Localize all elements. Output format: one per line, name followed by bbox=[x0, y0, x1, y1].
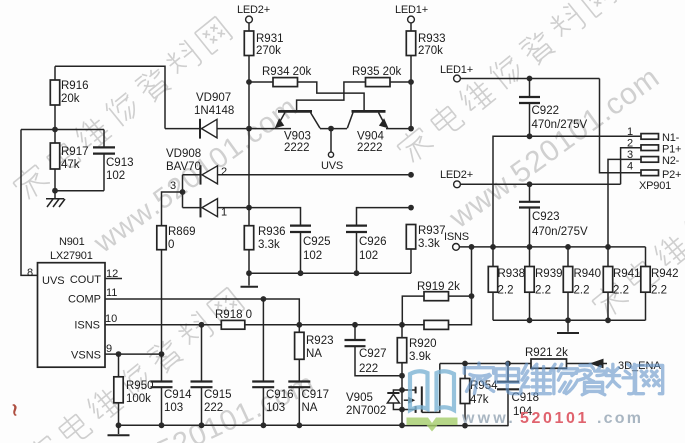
transistor V903 bbox=[249, 111, 320, 154]
svg-text:4: 4 bbox=[627, 161, 633, 173]
svg-text:2222: 2222 bbox=[357, 142, 383, 154]
connector XP901 pin 2 bbox=[627, 138, 681, 156]
resistor R918 bbox=[215, 309, 252, 329]
red mark artifact bottom-left bbox=[12, 404, 17, 416]
svg-text:C925: C925 bbox=[303, 236, 331, 248]
svg-text:N901: N901 bbox=[59, 236, 85, 248]
wire 3D_ENA gate node bbox=[440, 363, 531, 365]
node C923 top bbox=[527, 181, 533, 187]
svg-text:2N7002: 2N7002 bbox=[346, 405, 386, 417]
node R920 top bbox=[399, 322, 405, 328]
capacitor C925 bbox=[249, 208, 331, 274]
node V904 emitter / rail bbox=[408, 126, 414, 132]
svg-text:R940: R940 bbox=[574, 268, 602, 280]
resistor R940 bbox=[563, 247, 601, 320]
resistor R869 bbox=[157, 226, 196, 354]
logo text CJK (vector approximation) bbox=[464, 363, 662, 395]
resistor R942 bbox=[641, 247, 679, 320]
resistor R923 bbox=[295, 325, 334, 382]
node VD908 pin1 / R936 rail bbox=[246, 205, 252, 211]
svg-text:102: 102 bbox=[303, 250, 322, 262]
capacitor C915 bbox=[191, 325, 232, 426]
resistor R916 bbox=[50, 66, 88, 143]
svg-text:BAV70: BAV70 bbox=[166, 161, 201, 173]
transistor V904 bbox=[347, 111, 411, 154]
svg-text:R931: R931 bbox=[256, 33, 284, 45]
node R918/COMP junction bbox=[296, 322, 302, 328]
capacitor C917 bbox=[288, 382, 329, 426]
svg-text:ISNS: ISNS bbox=[444, 231, 469, 243]
connector XP901 pin 4 bbox=[627, 161, 681, 193]
watermark diagonal row top-right bbox=[394, 0, 617, 166]
svg-text:R937: R937 bbox=[418, 225, 446, 237]
svg-text:R921 2k: R921 2k bbox=[525, 347, 568, 359]
svg-text:270k: 270k bbox=[256, 45, 281, 57]
svg-text:1: 1 bbox=[221, 207, 227, 219]
watermark diagonal row mid-left bbox=[88, 91, 304, 260]
resistor R938 bbox=[488, 247, 525, 320]
svg-text:NA: NA bbox=[306, 348, 322, 360]
diode VD908 upper (pin 2) bbox=[166, 148, 411, 185]
svg-text:222: 222 bbox=[359, 363, 378, 375]
svg-text:ISNS: ISNS bbox=[74, 320, 100, 332]
wire COMP pin 11 bbox=[105, 296, 299, 325]
svg-text:C915: C915 bbox=[204, 389, 232, 401]
svg-text:N1-: N1- bbox=[662, 132, 680, 144]
svg-text:COUT: COUT bbox=[70, 274, 101, 286]
watermark diagonal row bottom-left bbox=[22, 286, 245, 443]
resistor R919b parallel (lower) bbox=[402, 247, 472, 330]
ground below R936 bbox=[241, 273, 259, 287]
svg-text:2: 2 bbox=[221, 166, 227, 178]
svg-text:LX27901: LX27901 bbox=[50, 250, 93, 262]
node ISNS bus junctions bbox=[469, 244, 611, 250]
terminal ISNS bbox=[444, 231, 646, 250]
node R916/R917 junction bbox=[21, 127, 104, 133]
svg-text:1N4148: 1N4148 bbox=[194, 105, 234, 117]
capacitor C914 bbox=[151, 354, 193, 425]
terminal UVS bbox=[321, 129, 343, 172]
capacitor C923 bbox=[519, 184, 588, 247]
resistor R919 bbox=[402, 281, 471, 325]
wire bottom ground rail bbox=[116, 422, 508, 428]
ground at rail left end bbox=[108, 425, 130, 435]
svg-text:R938: R938 bbox=[498, 268, 526, 280]
svg-text:C926: C926 bbox=[359, 236, 387, 248]
svg-text:LED1+: LED1+ bbox=[440, 64, 473, 76]
svg-text:R920: R920 bbox=[409, 338, 437, 350]
svg-text:11: 11 bbox=[106, 287, 117, 299]
LED1+ terminal top bbox=[395, 4, 428, 31]
diode V905 body diode bbox=[387, 390, 402, 410]
svg-text:9: 9 bbox=[106, 343, 112, 355]
wire collector net V903/V904 bbox=[320, 128, 347, 130]
ground below R940 bbox=[557, 320, 579, 333]
wire R917/C913 bottom bbox=[52, 188, 104, 194]
op-amp U1 N901 LX27901 IC box bbox=[27, 236, 118, 367]
node R919 right bbox=[469, 293, 475, 299]
svg-text:C927: C927 bbox=[359, 348, 387, 360]
LED2+ terminal top bbox=[237, 4, 270, 31]
connector XP901 pin 3 bbox=[627, 149, 680, 167]
wire ISNS net right of R918 bbox=[245, 324, 402, 326]
capacitor C927 bbox=[345, 325, 403, 376]
wire left rail to N901 pin 8 bbox=[21, 130, 38, 276]
resistor R917 bbox=[50, 143, 88, 191]
svg-text:10: 10 bbox=[105, 313, 117, 325]
resistor R931 bbox=[244, 31, 283, 129]
connector XP901 pin 1 bbox=[627, 126, 680, 144]
svg-text:V904: V904 bbox=[357, 131, 384, 143]
svg-text:3.9k: 3.9k bbox=[409, 351, 431, 363]
svg-text:0: 0 bbox=[168, 239, 174, 251]
svg-text:3: 3 bbox=[170, 180, 176, 192]
node VD907 / rail bbox=[246, 126, 252, 132]
svg-text:2.2: 2.2 bbox=[651, 285, 667, 297]
logo book icon bbox=[407, 371, 458, 431]
svg-text:103: 103 bbox=[266, 402, 285, 414]
resistor R950 bbox=[114, 354, 154, 425]
svg-text:.com: .com bbox=[597, 410, 643, 427]
svg-text:UVS: UVS bbox=[42, 275, 65, 287]
svg-text:470n/275V: 470n/275V bbox=[532, 119, 588, 131]
wire LED1+ to XP901 pin 4 bbox=[600, 79, 642, 173]
capacitor C922 bbox=[519, 79, 587, 137]
svg-text:102: 102 bbox=[359, 250, 378, 262]
node C918 top bbox=[505, 361, 511, 367]
node R954 top bbox=[462, 361, 468, 367]
svg-text:C922: C922 bbox=[532, 105, 560, 117]
svg-text:VD907: VD907 bbox=[196, 92, 231, 104]
wire top-left horizontal from R916 top bbox=[55, 66, 165, 128]
node VD908 pin2 / LED1 rail bbox=[408, 172, 414, 178]
svg-text:R869: R869 bbox=[168, 226, 196, 238]
svg-text:R916: R916 bbox=[61, 80, 89, 92]
capacitor C913 bbox=[93, 130, 134, 191]
resistor R954 bbox=[460, 364, 498, 427]
svg-text:C923: C923 bbox=[532, 211, 560, 223]
diode VD907 1N4148 bbox=[165, 92, 249, 139]
node R933 bottom / R935 tap bbox=[408, 79, 414, 85]
resistor R920 bbox=[397, 325, 436, 426]
resistor R936 bbox=[244, 129, 285, 274]
svg-text:P1+: P1+ bbox=[662, 144, 681, 156]
wire R934 output to V904 base bbox=[298, 82, 365, 111]
svg-text:2.2: 2.2 bbox=[498, 285, 514, 297]
watermark diagonal row right-edge bbox=[589, 133, 685, 322]
svg-text:V905: V905 bbox=[346, 392, 373, 404]
transistor Q1 V905 2N7002 bbox=[346, 364, 440, 418]
svg-text:UVS: UVS bbox=[321, 160, 343, 172]
svg-text:103: 103 bbox=[164, 402, 183, 414]
wire R935 output to V903 base bbox=[297, 82, 366, 111]
resistor R941 bbox=[603, 247, 640, 320]
svg-text:XP901: XP901 bbox=[639, 180, 671, 192]
diode VD908 lower (pin 1) bbox=[183, 198, 250, 219]
svg-text:C917: C917 bbox=[302, 389, 330, 401]
svg-text:V903: V903 bbox=[284, 131, 311, 143]
ground below R917 (hatched) bbox=[46, 191, 65, 207]
svg-text:470n/275V: 470n/275V bbox=[532, 226, 588, 238]
svg-text:2.2: 2.2 bbox=[535, 285, 551, 297]
capacitor C926 bbox=[346, 208, 411, 274]
svg-text:2.2: 2.2 bbox=[613, 285, 629, 297]
node C922 top bbox=[527, 76, 533, 82]
svg-text:1: 1 bbox=[627, 126, 633, 138]
wire COMP tap to C916 bbox=[262, 299, 264, 381]
LED2+ terminal right bbox=[440, 169, 621, 188]
svg-text:100k: 100k bbox=[126, 393, 151, 405]
svg-text:222: 222 bbox=[204, 402, 223, 414]
wire XP901 pin 2 to LED2+ bbox=[621, 148, 641, 185]
svg-text:47k: 47k bbox=[61, 159, 80, 171]
svg-text:LED2+: LED2+ bbox=[237, 4, 270, 16]
logo url text bbox=[461, 410, 643, 427]
node R931 bottom / R934 tap bbox=[246, 79, 252, 85]
node C915 tap bbox=[199, 322, 205, 328]
wire XP901 pin 3 to ISNS bus bbox=[608, 159, 641, 247]
svg-text:R923: R923 bbox=[306, 335, 334, 347]
svg-text:520101: 520101 bbox=[520, 410, 589, 427]
svg-text:R936: R936 bbox=[258, 226, 286, 238]
capacitor C918 bbox=[497, 364, 539, 427]
wire COUT pin 12 stub bbox=[105, 278, 122, 280]
svg-text:R939: R939 bbox=[535, 268, 563, 280]
svg-text:R942: R942 bbox=[651, 268, 679, 280]
svg-text:N2-: N2- bbox=[662, 155, 680, 167]
resistor R935 bbox=[352, 66, 401, 87]
node 3D_ENA arrow bbox=[590, 359, 662, 372]
svg-text:LED1+: LED1+ bbox=[395, 4, 428, 16]
resistor R921 bbox=[525, 347, 607, 368]
svg-text:3.3k: 3.3k bbox=[258, 239, 280, 251]
svg-text:47k: 47k bbox=[470, 394, 489, 406]
svg-text:R918 0: R918 0 bbox=[215, 309, 252, 321]
svg-text:8: 8 bbox=[27, 267, 33, 279]
svg-text:R933: R933 bbox=[418, 33, 446, 45]
resistor R933 bbox=[406, 31, 445, 129]
node UVS tap bbox=[328, 126, 334, 132]
watermark diagonal row top-left bbox=[10, 15, 233, 204]
resistor R939 bbox=[525, 247, 563, 320]
svg-text:R935 20k: R935 20k bbox=[352, 66, 401, 78]
svg-text:102: 102 bbox=[106, 170, 125, 182]
svg-text:VSNS: VSNS bbox=[71, 350, 101, 362]
node C927 tap bbox=[352, 322, 358, 328]
svg-text:270k: 270k bbox=[418, 45, 443, 57]
svg-text:NA: NA bbox=[302, 402, 318, 414]
watermark diagonal row bottom-center bbox=[85, 367, 320, 443]
svg-text:COMP: COMP bbox=[68, 294, 101, 306]
svg-text:2222: 2222 bbox=[284, 142, 310, 154]
svg-text:2.2: 2.2 bbox=[574, 285, 590, 297]
wire N1- net bbox=[493, 133, 641, 246]
node V905 drain / C927 bbox=[399, 373, 405, 379]
wire R935 right to LED1+ rail bbox=[390, 81, 411, 83]
watermark diagonal row mid-right bbox=[443, 61, 666, 236]
svg-text:20k: 20k bbox=[61, 93, 80, 105]
resistor R934 bbox=[249, 66, 311, 87]
wire R938-R942 bottom bbox=[493, 317, 646, 323]
svg-text:C914: C914 bbox=[164, 389, 192, 401]
svg-text:VD908: VD908 bbox=[166, 148, 201, 160]
svg-text:3.3k: 3.3k bbox=[418, 238, 440, 250]
wire ISNS pin 10 bbox=[105, 324, 221, 326]
wire VD908 common (pin 3) bbox=[162, 175, 186, 226]
node C926 top / rail bbox=[408, 205, 414, 211]
capacitor C916 bbox=[252, 382, 293, 426]
wire VSNS pin 9 bbox=[105, 351, 164, 357]
wire R936/C925/C926/R937 bottom bbox=[246, 270, 411, 276]
svg-text:R934 20k: R934 20k bbox=[262, 66, 311, 78]
svg-text:C916: C916 bbox=[266, 389, 294, 401]
svg-text:www.: www. bbox=[461, 410, 516, 427]
svg-text:R950: R950 bbox=[126, 380, 154, 392]
svg-text:R917: R917 bbox=[61, 146, 89, 158]
svg-text:LED2+: LED2+ bbox=[440, 169, 473, 181]
resistor R937 bbox=[406, 225, 445, 274]
svg-text:R941: R941 bbox=[613, 268, 641, 280]
svg-text:C913: C913 bbox=[106, 157, 134, 169]
LED1+ terminal right bbox=[440, 64, 600, 82]
